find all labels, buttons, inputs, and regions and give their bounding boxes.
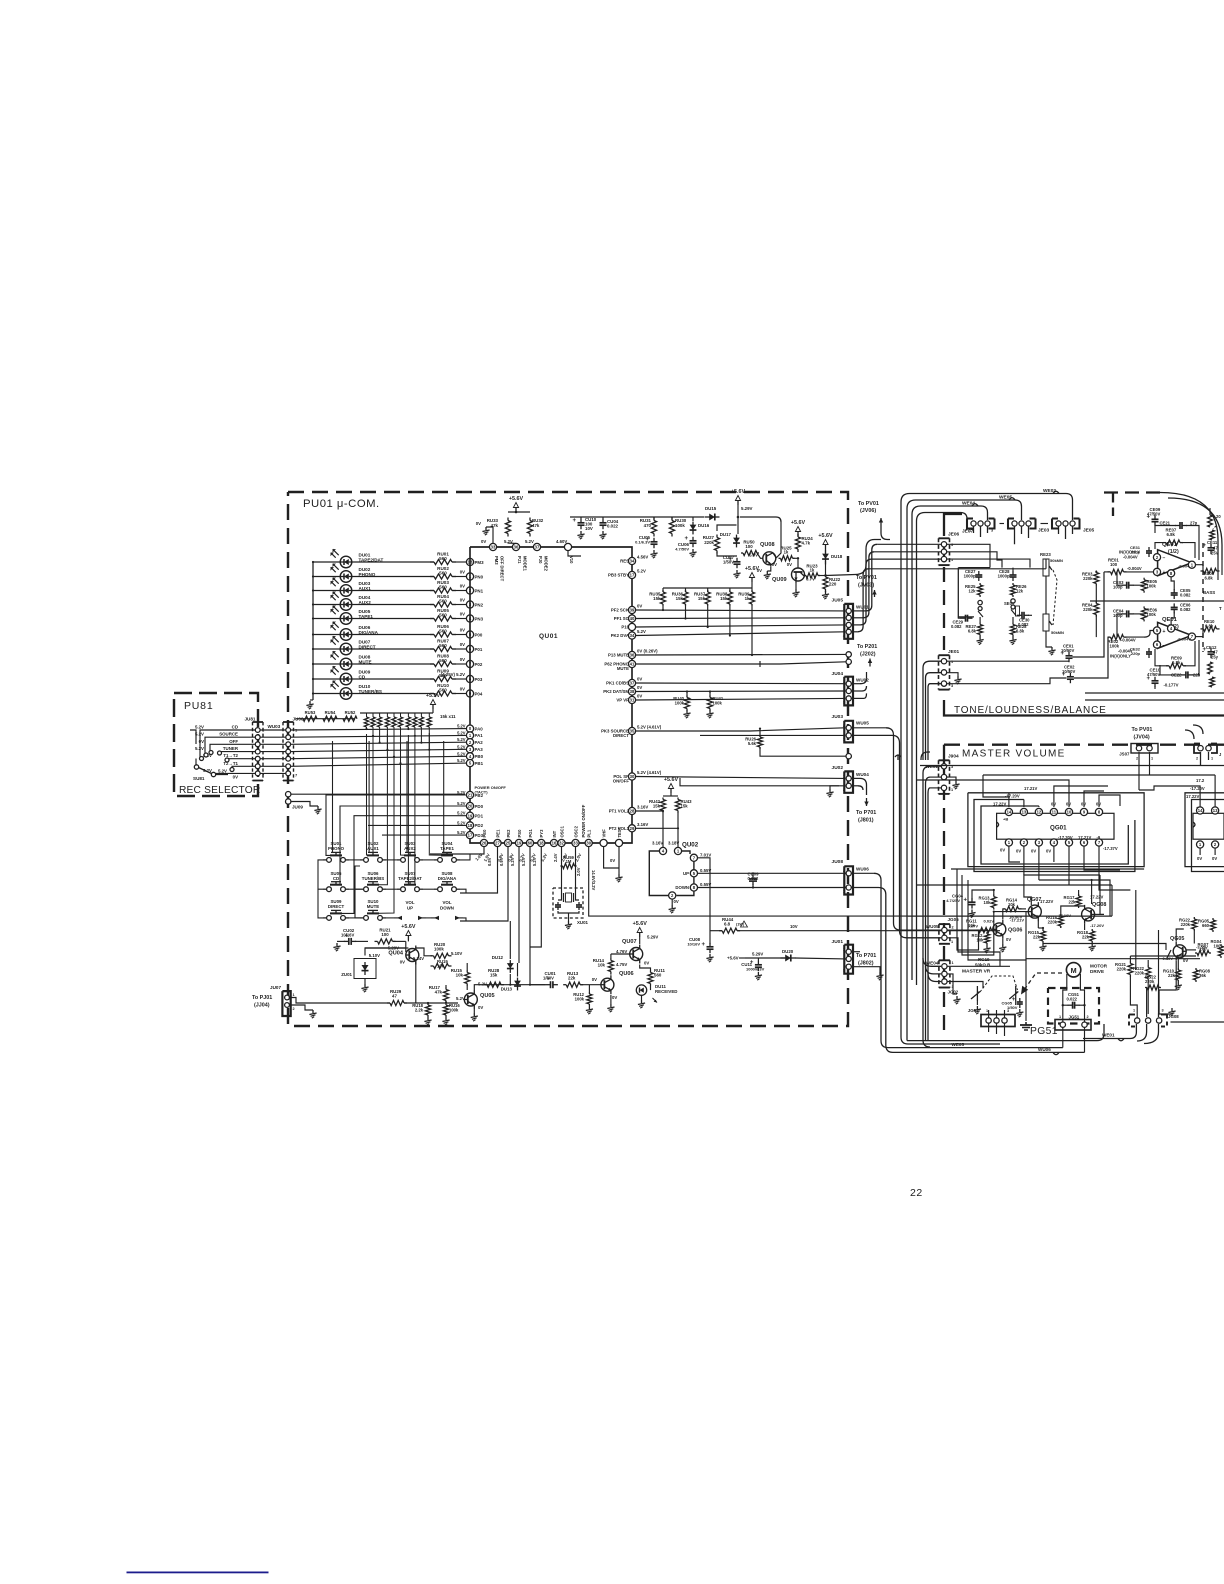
svg-text:1/50V: 1/50V [723,560,734,565]
svg-text:47: 47 [392,993,397,998]
QU01 bottom pin PE0 [480,829,491,863]
wire QG08 base [1095,913,1104,915]
wires JS07 down [1139,752,1209,790]
svg-text:5.2V: 5.2V [457,751,466,756]
wires JU04 up [852,672,867,698]
resistor RU27 220k [703,535,720,554]
wire 875 run [1100,875,1104,914]
svg-text:0V (0.26V): 0V (0.26V) [637,649,658,654]
svg-text:WE05: WE05 [999,495,1012,501]
svg-text:JE07: JE07 [962,529,974,535]
QG01 pin 3 [1035,839,1042,855]
transistor QU04 [388,946,418,965]
QU01 pin PD3 [457,830,484,839]
QG01 pin 14 [1005,808,1012,815]
svg-text:To P701: To P701 [856,810,876,816]
wire matrix col2 [318,860,360,918]
power +5.6V DU18 [818,533,833,549]
svg-text:5.2V: 5.2V [218,769,227,774]
resistor RU08 560 [352,654,467,667]
svg-text:0.082: 0.082 [1180,592,1191,597]
power +5.6V CU11 [727,952,763,961]
svg-text:+5.6V: +5.6V [818,533,833,539]
svg-text:TONE/LOUDNESS/BALANCE: TONE/LOUDNESS/BALANCE [954,705,1107,716]
diode DU15 [705,506,720,521]
capacitor CE12 47 25V [1203,645,1219,660]
svg-text:220p: 220p [1131,651,1141,656]
resistor RU29 47 [291,989,458,1006]
svg-text:QG06: QG06 [1008,928,1022,934]
label WE02 [1043,488,1059,494]
svg-text:40: 40 [630,616,635,621]
wires QG01 pins top [1009,783,1120,807]
svg-text:3.16V: 3.16V [637,805,648,810]
power +5.5V bank [426,693,441,713]
wire JE01 mid gnd [947,673,962,684]
QG01r voltages [1186,778,1205,799]
QU01 pin PB2 [457,785,506,799]
svg-text:SOURCE: SOURCE [219,732,238,737]
svg-text:0V: 0V [772,562,777,567]
power +5.6V RU24 [791,520,806,536]
svg-text:1: 1 [969,529,971,533]
svg-text:OSC2: OSC2 [573,825,578,837]
transistor QU09 [772,558,815,597]
resistor RU23 1k [804,564,827,579]
connector JU81 [245,717,266,781]
resistor RG22 220k [1133,960,1151,1014]
svg-text:JE05: JE05 [1083,528,1095,534]
svg-text:JG51: JG51 [1069,1015,1080,1020]
ground JU02 [826,786,839,797]
svg-text:+5.6V: +5.6V [745,566,760,572]
svg-text:CD: CD [333,876,339,881]
svg-text:ZU01: ZU01 [341,972,352,977]
wire QU04 emitter [415,962,417,1004]
wires motor [1063,974,1085,1022]
PU81 box border [174,693,258,796]
svg-text:PA2: PA2 [475,740,484,745]
svg-text:-17.37V: -17.37V [1103,846,1118,851]
wire opamp2 out [1177,637,1203,642]
label RG19 50kB [975,957,990,968]
svg-text:0.022: 0.022 [748,876,759,881]
QU01 pin PD0 [457,801,484,810]
connector free pin [846,754,851,759]
svg-text:PD2: PD2 [475,823,484,828]
connector JU02 [832,765,870,793]
ground JG02 [948,974,961,1004]
capacitor CU05 0.1/6.3V [635,535,658,558]
QU01 bottom pin INT [550,830,557,846]
svg-text:WU05: WU05 [926,924,939,929]
switch SU01 PHONO [323,841,349,862]
label 0V QU07 [644,961,649,966]
LED DU02 PHONO [312,564,376,583]
svg-text:TEST: TEST [617,826,622,837]
label MOTOR DRIVE [1090,964,1108,975]
bank stubs [365,728,430,765]
svg-text:P10: P10 [621,625,629,630]
TONE title [954,705,1107,716]
svg-text:17: 17 [630,573,635,578]
svg-text:100: 100 [745,544,753,549]
QU01 bottom pin PS0 [515,829,526,863]
LED DU10 TUNER/BS [312,681,382,700]
svg-text:100: 100 [1214,943,1222,948]
svg-text:2.0V: 2.0V [576,867,581,876]
svg-text:5.29V: 5.29V [741,506,753,511]
svg-text:INT: INT [552,830,557,837]
svg-text:-17.21V: -17.21V [1010,918,1024,923]
svg-text:1: 1 [843,738,845,742]
QU01 right pin VP VP [616,694,642,704]
svg-text:-17.20V: -17.20V [1005,794,1020,799]
resistor RU05 560 [352,608,467,621]
LED DU01 TAPE2/DAT [312,549,384,568]
wires JU02 arrow [852,778,869,806]
svg-text:+: + [964,897,968,903]
QU02 pin2 [669,892,679,913]
switch SU10 MUTE [360,899,386,920]
svg-text:25V: 25V [1211,551,1219,556]
svg-text:0V: 0V [787,562,792,567]
wire mid 869 [951,868,1144,870]
svg-text:-0.004: -0.004 [1178,564,1190,569]
switch SU05 CD [323,871,349,892]
svg-text:JE01: JE01 [948,649,960,655]
label To PV01 JV06 [858,501,879,514]
QU01 top pin PJ1 [504,539,528,572]
svg-text:1: 1 [1211,757,1213,761]
svg-text:25y: 25y [1211,655,1219,660]
svg-text:+5.6V: +5.6V [791,520,806,526]
resistor RU31 470 [640,517,657,537]
wire PK2b line [636,690,845,693]
switch SU08 DIG/ANA [434,871,460,892]
svg-text:(TACT): (TACT) [475,790,489,795]
svg-text:PF2 SCK: PF2 SCK [611,608,630,613]
svg-text:QG01: QG01 [1050,825,1067,832]
svg-text:0V: 0V [637,694,642,699]
wire matrix col1 [333,741,444,852]
svg-text:20: 20 [1216,514,1221,519]
svg-text:5.2V: 5.2V [203,768,212,773]
svg-text:0V: 0V [233,775,238,780]
svg-text:22k: 22k [1168,973,1176,978]
QU01 pin P02 [460,657,483,668]
label WU03 [268,724,281,729]
capacitor CU02 10/16V [333,928,368,951]
svg-text:PD1: PD1 [475,814,484,819]
wires JG01 up [989,1010,1005,1018]
box around QG01 [968,793,1144,872]
wire PL1 power onoff [589,847,908,916]
svg-text:5.2V: 5.2V [637,629,646,634]
QU01 right pin PK2 DAT/SM [603,685,642,695]
svg-text:10: 10 [1067,810,1072,815]
IC QU01 label [539,633,558,640]
QG01 pin 13 [1020,808,1027,815]
svg-text:PJ0: PJ0 [538,556,543,564]
svg-text:1: 1 [986,1009,988,1013]
svg-text:WU06: WU06 [1038,1047,1051,1052]
svg-text:1: 1 [293,993,295,997]
QU01 pin PB1 [457,758,484,767]
pot RE23 dashes [1053,570,1057,625]
svg-text:0V: 0V [612,995,617,1000]
dashed divider tone [1203,543,1222,652]
svg-text:0.1/6.3V: 0.1/6.3V [635,540,650,545]
svg-text:(4.25V) 5.2V: (4.25V) 5.2V [441,672,465,677]
svg-text:17.22V: 17.22V [1040,899,1053,904]
capacitor CE03 100p [1113,572,1144,590]
svg-text:3: 3 [951,684,953,688]
QU01 right pin PK1 CD/BS [606,677,642,687]
svg-text:1M: 1M [566,859,572,864]
JU81 pin name labels [195,725,239,780]
svg-text:PN1: PN1 [475,588,484,593]
svg-text:17.22V: 17.22V [1186,794,1199,799]
wire CU08 top [0,0,1,1]
PU01 block dashed border [288,492,848,1026]
capacitor CE22 22p [1160,640,1201,678]
svg-text:JU81: JU81 [245,717,256,722]
svg-text:0.022: 0.022 [1067,997,1078,1002]
resistor RU25 1k [779,546,800,561]
svg-text:DU12: DU12 [492,955,504,960]
label 4.76V [616,949,627,954]
footer rule line [127,1572,269,1574]
connector JU03 [832,714,870,742]
svg-text:47k: 47k [435,989,443,994]
QU02 pin8 DOWN [675,882,711,891]
svg-text:5.2V: 5.2V [457,744,466,749]
svg-text:0V: 0V [1016,849,1021,854]
QU01 pin PA2 [457,737,483,746]
svg-text:POWER ON/OFF: POWER ON/OFF [581,804,586,837]
svg-text:50kMN: 50kMN [1051,630,1064,635]
svg-text:4.60V: 4.60V [556,539,567,544]
svg-text:DOWN: DOWN [440,906,454,911]
LED anode bus wire [310,562,313,700]
resistor RU19 10k [413,956,451,969]
svg-text:RES: RES [620,559,629,564]
svg-text:10k: 10k [977,937,985,942]
svg-text:13: 13 [1022,810,1027,815]
label SE01 [1004,601,1015,606]
wire VOL1 to QU02 [636,812,680,848]
connector JU07 [270,985,295,1016]
svg-text:RU54: RU54 [325,710,336,715]
svg-text:100k: 100k [434,946,444,951]
svg-text:DOWN: DOWN [675,885,689,890]
svg-text:20: 20 [468,804,473,809]
svg-text:0.022: 0.022 [607,524,619,529]
QG01 pin 11 [1050,808,1057,815]
pot master dashes [980,976,1018,992]
svg-text:19: 19 [517,841,522,846]
capacitor CE32 220p [1130,647,1152,659]
resistor RU40 100k [673,690,690,718]
wires QG right top [1139,775,1215,800]
svg-text:P03: P03 [475,677,483,682]
wires into J904 [921,752,941,1040]
zener DU18 [822,549,843,577]
wire RU33-32 top [508,511,530,514]
PU81 title [184,700,213,712]
svg-text:27p: 27p [1190,521,1198,526]
svg-text:0V: 0V [610,858,615,863]
svg-text:7: 7 [295,773,298,778]
svg-text:+5.6V: +5.6V [401,924,416,930]
svg-text:UP: UP [683,871,689,876]
svg-text:22k: 22k [1082,934,1090,939]
wires QG01 pins bottom [1009,855,1131,890]
svg-text:5.2V: 5.2V [457,801,466,806]
QU01 right pin PT2 VOL1 [609,822,649,832]
svg-text:MODE1: MODE1 [523,556,528,572]
svg-text:60: 60 [528,841,533,846]
resistor RU30 100k [669,517,686,537]
capacitor CE05 0.082 [1171,577,1216,599]
pot RE23 lower [1043,590,1064,643]
svg-text:18: 18 [468,823,473,828]
svg-text:IN(X)ONLY: IN(X)ONLY [1110,654,1131,659]
svg-text:+: + [573,518,577,524]
wires JU08 right [852,873,1085,1052]
svg-text:PM3: PM3 [494,556,499,565]
wire WE05 line [907,1024,1104,1047]
svg-text:1: 1 [843,607,845,611]
resistor RG16 220k [1046,914,1063,928]
svg-text:WU02: WU02 [856,678,869,683]
svg-text:10/50V: 10/50V [1062,669,1075,674]
resistor RU41 100k [706,690,723,718]
resistor RU32 47k [527,518,543,537]
svg-text:6.8k: 6.8k [1172,660,1181,665]
wire PF1 line [636,617,845,620]
svg-text:+5.6V: +5.6V [509,496,524,502]
svg-text:0V: 0V [460,570,465,575]
svg-text:39: 39 [630,608,635,613]
resistor RG10 22k [1163,958,1182,990]
svg-text:6.8k: 6.8k [968,628,977,633]
label 0V QU04 [400,960,405,965]
wire weave1 [957,869,979,950]
svg-text:0V: 0V [637,604,642,609]
label WU06 [1038,1047,1059,1055]
svg-text:DIRECT: DIRECT [613,733,629,738]
svg-text:5.2V: 5.2V [457,820,466,825]
LED DU09 CD [312,666,371,685]
vertical bundle wire2 [907,500,1022,1041]
svg-text:1: 1 [1151,757,1153,761]
connector JE06 [939,532,960,566]
svg-text:36k: 36k [1199,973,1207,978]
connector J904 [926,754,960,794]
svg-text:220k: 220k [1135,970,1145,975]
QU01 bottom pin TEST [615,826,622,846]
svg-text:0V: 0V [460,687,465,692]
svg-text:PT1 VOL2: PT1 VOL2 [609,809,630,814]
QU01 pin P01 [460,642,483,653]
svg-text:10/16V: 10/16V [341,933,354,938]
svg-text:QE01: QE01 [1162,617,1178,623]
svg-text:RE23: RE23 [1040,552,1051,557]
pot right bottom [1208,662,1215,687]
svg-text:15k: 15k [698,596,706,601]
svg-text:0.082: 0.082 [951,624,962,629]
wire J904 line1 [0,0,1,1]
svg-text:2: 2 [843,869,845,873]
connector JU01 [832,939,853,974]
capacitor CE04 100p [1113,609,1144,638]
svg-text:+: + [1163,570,1166,576]
connector JU04 [832,671,870,705]
capacitor CU09 0.022 [748,872,760,889]
svg-text:17.21V: 17.21V [1078,835,1091,840]
svg-text:PK2 DAT/SM: PK2 DAT/SM [603,689,629,694]
resistor RG13 10k [972,889,996,910]
svg-text:27: 27 [495,841,500,846]
wires JE01 right [947,661,1069,684]
QU01 pin PM3 [466,558,484,565]
svg-text:3: 3 [991,529,993,533]
label To PV01 JV03 [856,575,877,589]
label VOL UP [394,900,426,920]
resistor RU21 100 [375,928,396,945]
svg-text:+5.6V: +5.6V [664,777,679,783]
svg-text:To P201: To P201 [857,644,877,650]
wire CE06 to pin4 [1171,612,1174,624]
svg-text:0V: 0V [460,628,465,633]
svg-text:3: 3 [1162,1009,1164,1013]
wire PG51 rail [1026,959,1200,1021]
svg-text:0.9V: 0.9V [499,857,504,866]
svg-text:JU03: JU03 [832,714,844,720]
svg-text:(J802): (J802) [858,961,874,967]
svg-text:0V: 0V [476,521,481,526]
svg-text:3: 3 [843,969,845,973]
wire tone mid2 [1085,699,1224,701]
svg-text:560: 560 [654,972,662,977]
switch SU04 TAPE1 [434,841,460,862]
svg-text:19: 19 [468,813,473,818]
svg-text:17: 17 [468,833,473,838]
MASTER block border [944,745,1224,1032]
svg-text:220k: 220k [704,540,714,545]
svg-text:WU03: WU03 [268,724,281,729]
resistor RU33 47k [487,518,511,537]
svg-text:14: 14 [1007,810,1012,815]
resistor RU26 5.6k [700,728,846,757]
svg-text:QU06: QU06 [619,971,634,977]
svg-text:100k: 100k [713,701,723,706]
QG01 pin 8 [1095,808,1102,815]
svg-text:DU20: DU20 [782,949,794,954]
resistor RU50 100 [741,540,763,559]
svg-text:29: 29 [630,826,635,831]
wire PF2 line [636,609,845,612]
svg-text:7.01V: 7.01V [700,853,711,858]
svg-text:22k: 22k [1069,899,1077,904]
wire top rail [570,516,704,518]
svg-text:47k: 47k [491,523,499,528]
svg-text:PA3: PA3 [475,747,484,752]
svg-text:5.2V: 5.2V [510,857,515,866]
connector JS07 [1119,744,1158,761]
